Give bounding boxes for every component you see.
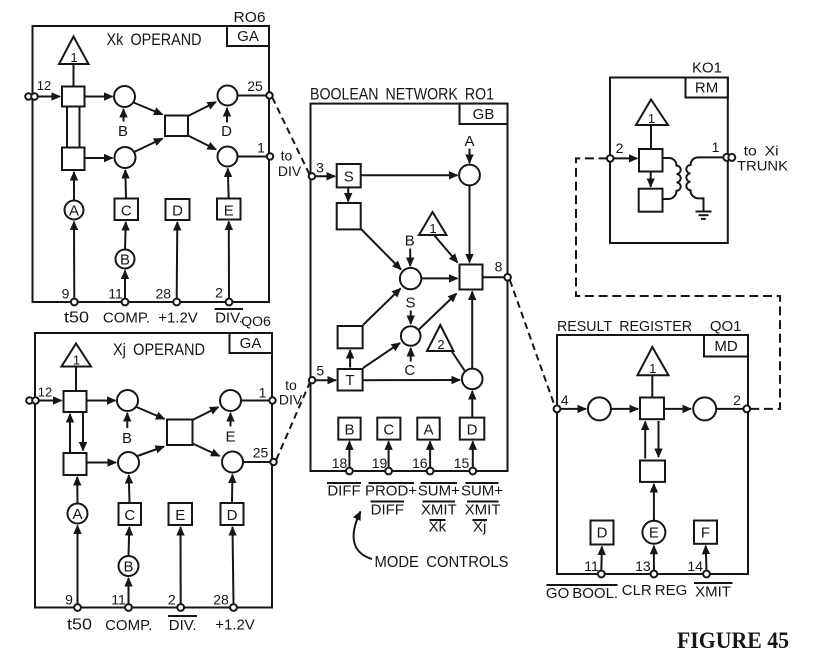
pin 9 Xj xyxy=(65,592,81,611)
wire triangle to square QO1 xyxy=(651,375,653,397)
square D middle xyxy=(166,199,190,220)
svg-text:5: 5 xyxy=(316,363,324,379)
svg-text:1: 1 xyxy=(259,385,267,401)
transformer secondary winding xyxy=(686,157,723,211)
svg-text:GA: GA xyxy=(237,28,259,45)
svg-text:E: E xyxy=(225,429,235,446)
diagonal circle B to center square xyxy=(134,103,163,115)
svg-text:MD: MD xyxy=(714,338,737,355)
svg-text:Xk: Xk xyxy=(429,519,447,536)
svg-text:A: A xyxy=(69,202,79,219)
diagonal lower circle to center square Xj xyxy=(138,447,165,457)
svg-text:QO6: QO6 xyxy=(241,313,271,329)
circle E QO1 xyxy=(642,521,665,544)
output pin 1 to DIV xyxy=(257,140,302,180)
arrow B to C xyxy=(124,222,127,250)
svg-text:1: 1 xyxy=(649,361,656,376)
arrow C to lower left circle xyxy=(124,170,127,199)
svg-text:MODE CONTROLS: MODE CONTROLS xyxy=(375,554,509,571)
svg-text:to Xi: to Xi xyxy=(744,143,779,159)
wire pin 2 to E xyxy=(228,222,230,299)
arrow T up to square xyxy=(349,350,351,368)
curved arrow mode controls xyxy=(354,512,372,560)
center square mixer xyxy=(165,116,188,137)
svg-text:D: D xyxy=(597,525,608,542)
svg-text:S: S xyxy=(405,295,415,312)
square B boolean xyxy=(338,418,360,440)
circle A xyxy=(65,201,84,220)
svg-text:TRUNK: TRUNK xyxy=(737,158,789,174)
arrow C to lower left circle Xj xyxy=(128,475,131,503)
pin 13 QO1 xyxy=(635,558,657,577)
line triangle 2 to circle 3 xyxy=(452,351,465,371)
svg-text:D: D xyxy=(172,202,183,219)
svg-text:DIV.: DIV. xyxy=(169,617,197,634)
net COMP. xyxy=(103,310,150,327)
svg-text:D: D xyxy=(467,421,478,438)
svg-text:+1.2V: +1.2V xyxy=(158,310,198,327)
svg-text:11: 11 xyxy=(108,286,123,302)
amplifier triangle 1 KO1 xyxy=(636,100,668,127)
svg-text:1: 1 xyxy=(712,139,720,155)
arrow V1 to circle B Xj xyxy=(87,400,116,402)
svg-text:GA: GA xyxy=(240,335,262,352)
arrow V2 to circle lower left Xj xyxy=(87,462,117,464)
wire to pin 1 xyxy=(238,156,268,158)
svg-text:FIGURE 45: FIGURE 45 xyxy=(677,628,789,653)
diagonal center square to circle E Xj xyxy=(193,407,219,420)
square V1 xyxy=(64,391,87,412)
title RESULT REGISTER QO1 xyxy=(557,318,742,335)
arrow B to C Xj xyxy=(128,527,131,556)
wire T to circle 3 xyxy=(363,379,460,381)
svg-text:E: E xyxy=(224,202,234,219)
square D boolean xyxy=(460,418,485,440)
svg-text:12: 12 xyxy=(38,385,52,400)
feedback arrow up QO1 xyxy=(644,422,646,459)
pin 18 xyxy=(332,455,353,474)
square D QO1 xyxy=(591,521,614,545)
circle B upper Xj xyxy=(117,390,138,411)
svg-text:B: B xyxy=(344,421,354,438)
svg-text:CLR REG: CLR REG xyxy=(622,582,688,599)
center square QO1 xyxy=(640,398,664,420)
lower square QO1 xyxy=(640,461,665,482)
svg-text:PROD+: PROD+ xyxy=(365,483,417,500)
input pin 12 xyxy=(25,78,60,100)
svg-text:KO1: KO1 xyxy=(692,60,722,77)
svg-text:B: B xyxy=(405,233,415,250)
svg-text:COMP.: COMP. xyxy=(105,617,152,634)
wire pin 28 to D xyxy=(176,222,179,299)
square W1 xyxy=(639,149,663,172)
output pin 1 to Xi TRUNK xyxy=(712,139,789,174)
circle B upper xyxy=(114,86,135,107)
wire pin 11 to B xyxy=(124,271,126,299)
pin 14 QO1 xyxy=(687,558,709,577)
diagonal circle B to center square Xj xyxy=(137,407,165,419)
module box Xk OPERAND xyxy=(33,26,270,302)
arrow square to right circle QO1 xyxy=(664,408,691,410)
diagonal T to circle 2 xyxy=(363,343,400,368)
svg-text:+1.2V: +1.2V xyxy=(215,617,255,634)
svg-text:t50: t50 xyxy=(64,310,89,327)
svg-text:15: 15 xyxy=(454,455,470,471)
svg-text:2: 2 xyxy=(733,392,741,408)
triangle 2 boolean xyxy=(427,325,454,352)
svg-text:1: 1 xyxy=(73,353,80,368)
label A input top xyxy=(464,133,474,163)
module box RESULT REGISTER xyxy=(557,335,748,574)
arrow U1 to circle B xyxy=(85,96,113,98)
ground xyxy=(696,212,712,219)
wire pin 15 to D xyxy=(472,441,474,467)
wire pin 11 to B Xj xyxy=(128,578,130,604)
svg-text:2: 2 xyxy=(215,285,223,301)
square C Xj xyxy=(119,503,142,525)
svg-text:to: to xyxy=(281,148,293,164)
arrow pin 2 to W1 xyxy=(614,157,638,159)
square U2 xyxy=(62,148,85,171)
arrow D to lower right circle Xj xyxy=(231,475,233,504)
center square mixer Xj xyxy=(167,420,193,446)
module box BOOLEAN NETWORK xyxy=(311,104,508,471)
diagonal center square to lower right circle Xj xyxy=(193,444,220,457)
net t50 Xj xyxy=(67,617,92,634)
label E input Xj xyxy=(225,413,235,446)
net GO BOOL bar xyxy=(546,585,618,602)
label B input xyxy=(118,109,128,140)
dashed wire Xk 25 to boolean 3 xyxy=(272,98,309,175)
main square boolean xyxy=(460,265,483,290)
net SUM+ bar Xj xyxy=(461,483,503,500)
svg-text:GB: GB xyxy=(473,106,495,123)
square C xyxy=(115,199,139,221)
diagonal center square to circle D xyxy=(188,102,216,116)
arrow W1 to W2 xyxy=(650,172,652,187)
net COMP. Xj xyxy=(105,617,152,634)
wire circle 1 to main square xyxy=(421,277,457,279)
svg-text:4: 4 xyxy=(561,392,569,408)
tag RM xyxy=(686,78,728,98)
pin 11 QO1 xyxy=(584,558,604,577)
diagonal circle 2 to main square xyxy=(419,294,457,330)
square C boolean xyxy=(377,418,400,440)
arrow pin 5 to T xyxy=(315,379,336,381)
svg-text:t50: t50 xyxy=(67,617,92,634)
net t50 xyxy=(64,310,89,327)
svg-text:16: 16 xyxy=(412,455,428,471)
label B boolean xyxy=(405,233,415,267)
output pin 25 xyxy=(247,78,272,99)
svg-text:Xj OPERAND: Xj OPERAND xyxy=(113,340,205,359)
input pin 5 xyxy=(309,363,325,384)
svg-text:1: 1 xyxy=(429,221,436,236)
circle lower right Xj xyxy=(222,452,243,473)
net +1.2V Xj xyxy=(215,617,255,634)
net Xj bar xyxy=(473,519,488,536)
svg-text:1: 1 xyxy=(257,140,265,156)
square T xyxy=(338,369,363,391)
svg-text:RM: RM xyxy=(695,80,718,97)
svg-text:18: 18 xyxy=(332,455,348,471)
wire triangle to square xyxy=(73,64,75,87)
svg-text:D: D xyxy=(221,123,232,140)
circle top right xyxy=(459,165,480,186)
svg-text:Xj: Xj xyxy=(473,519,486,536)
svg-text:2: 2 xyxy=(168,592,176,608)
dashed wire register 2 to KO1 2 xyxy=(576,158,780,409)
svg-text:19: 19 xyxy=(372,455,388,471)
square E xyxy=(217,199,241,220)
wire pin 9 to A xyxy=(73,222,75,299)
svg-text:Xk OPERAND: Xk OPERAND xyxy=(107,30,202,49)
svg-text:8: 8 xyxy=(495,259,503,275)
label D input xyxy=(221,108,232,140)
svg-text:A: A xyxy=(464,133,474,150)
circle lower right xyxy=(218,147,238,167)
svg-text:A: A xyxy=(72,506,82,523)
diagonal lower circle to center square xyxy=(134,139,163,153)
wire to pin 1 Xj xyxy=(241,400,269,402)
square V2 xyxy=(64,453,87,475)
title Xj OPERAND xyxy=(113,340,205,359)
vertical circle 3 to main square xyxy=(471,292,473,369)
svg-text:B: B xyxy=(120,251,130,268)
diagonal triangle 1 to main square xyxy=(434,235,458,263)
pin 28 xyxy=(156,285,181,305)
arrow U2 to circle lower left xyxy=(85,157,113,159)
circle right QO1 xyxy=(693,397,716,420)
svg-text:9: 9 xyxy=(65,592,73,608)
net PROD+ bar xyxy=(365,483,417,500)
arrow A to U2 xyxy=(73,172,75,201)
circle D output xyxy=(218,86,238,106)
svg-text:BOOLEAN NETWORK RO1: BOOLEAN NETWORK RO1 xyxy=(310,85,494,104)
module box KO1 xyxy=(610,78,728,244)
svg-text:D: D xyxy=(227,507,238,524)
svg-text:GO BOOL.: GO BOOL. xyxy=(546,585,618,602)
square above T xyxy=(338,326,363,348)
svg-text:E: E xyxy=(175,507,185,524)
bus arrow up Xj xyxy=(69,414,71,452)
square W2 xyxy=(639,189,663,212)
svg-text:12: 12 xyxy=(37,78,51,93)
net Xk bar xyxy=(429,519,447,536)
net XMIT bar Xk xyxy=(421,502,457,519)
middle circle 1 xyxy=(400,268,421,289)
svg-text:9: 9 xyxy=(62,286,70,302)
svg-text:B: B xyxy=(123,558,133,575)
svg-text:COMP.: COMP. xyxy=(103,310,150,327)
wire triangle to square KO1 xyxy=(650,125,652,149)
svg-text:1: 1 xyxy=(648,111,655,126)
pin 2 xyxy=(215,285,232,306)
pin 15 xyxy=(454,455,476,474)
svg-text:A: A xyxy=(423,421,433,438)
vertical top circle to main square xyxy=(469,185,471,262)
arrow E to lower right circle xyxy=(227,169,230,199)
amplifier triangle 1 xyxy=(59,37,89,66)
caption FIGURE 45 xyxy=(677,628,789,653)
wire pin 11 to D QO1 xyxy=(600,547,603,571)
svg-text:2: 2 xyxy=(437,337,444,352)
svg-text:QO1: QO1 xyxy=(710,318,742,335)
svg-text:28: 28 xyxy=(156,285,172,301)
net DIFF bar xyxy=(327,483,361,500)
output pin 1 Xj to DIV xyxy=(259,377,303,408)
square F QO1 xyxy=(694,521,717,544)
pin 11 Xj xyxy=(111,592,132,611)
circle E upper right Xj xyxy=(220,390,241,411)
amplifier triangle 1 Xj xyxy=(62,344,92,368)
svg-text:25: 25 xyxy=(247,78,263,94)
circle lower left Xj xyxy=(118,452,139,473)
svg-text:DIFF: DIFF xyxy=(327,483,360,500)
wire to pin 25 Xj xyxy=(243,461,271,463)
square D lower Xj xyxy=(221,503,244,525)
label KO1 xyxy=(692,60,722,77)
svg-text:SUM+: SUM+ xyxy=(461,483,503,500)
wire pin 18 to B xyxy=(348,441,350,467)
svg-text:B: B xyxy=(122,430,132,447)
pin 11 xyxy=(108,286,128,306)
net XMIT bar QO1 xyxy=(694,583,733,601)
svg-text:DIFF: DIFF xyxy=(371,502,404,519)
wire triangle to square Xj xyxy=(75,367,77,392)
net DIFF bar 2 xyxy=(371,502,405,519)
wire S to top circle xyxy=(361,174,458,176)
output pin 25 Xj xyxy=(253,445,277,466)
net XMIT bar Xj xyxy=(465,502,501,519)
net CLR REG xyxy=(622,582,688,599)
svg-text:2: 2 xyxy=(616,140,624,156)
square S xyxy=(337,164,361,187)
tag MD xyxy=(704,335,748,357)
svg-text:SUM+: SUM+ xyxy=(418,483,460,500)
dashed wire Xj 25 to boolean 5 xyxy=(276,383,310,460)
bus arrow down Xj xyxy=(82,413,84,451)
output pin 2 QO1 xyxy=(733,392,750,412)
svg-text:C: C xyxy=(121,202,132,219)
amplifier triangle 1 QO1 xyxy=(638,347,669,376)
circle B lower xyxy=(116,250,135,269)
pin 28 Xj xyxy=(213,592,237,611)
net +1.2V xyxy=(158,310,198,327)
bus lines between squares xyxy=(67,107,80,148)
net DIV bar xyxy=(215,309,244,327)
diagonal square to middle circle 1 xyxy=(361,229,402,270)
svg-text:C: C xyxy=(404,362,415,379)
title BOOLEAN NETWORK RO1 xyxy=(310,85,494,104)
svg-text:C: C xyxy=(383,421,394,438)
wire pin 13 to E QO1 xyxy=(653,546,655,571)
svg-text:XMIT: XMIT xyxy=(465,502,501,519)
square U1 xyxy=(62,87,85,107)
svg-text:DIV.: DIV. xyxy=(215,310,243,327)
circle lower left xyxy=(115,147,136,168)
input pin 2 KO1 xyxy=(607,140,624,162)
net SUM+ bar Xk xyxy=(418,483,460,500)
circle left QO1 xyxy=(588,397,611,420)
tag GA 2 xyxy=(230,333,273,353)
arrow S down xyxy=(347,187,349,201)
svg-text:11: 11 xyxy=(584,558,599,574)
feedback arrow down QO1 xyxy=(658,421,660,457)
output pin 8 xyxy=(495,259,511,281)
svg-text:RESULT REGISTER: RESULT REGISTER xyxy=(557,318,692,335)
svg-text:1: 1 xyxy=(70,50,77,65)
diagonal center square to circle E row xyxy=(188,136,216,150)
label QO6 xyxy=(241,313,271,329)
wire pin 16 to A xyxy=(429,441,431,467)
arrow E to lower square QO1 xyxy=(653,484,655,521)
arrow D to circle 3 xyxy=(471,391,473,418)
label MODE CONTROLS xyxy=(375,554,509,571)
label C middle xyxy=(404,348,415,379)
label RO6 xyxy=(234,9,266,26)
arrow pin 4 to circle xyxy=(560,408,586,410)
input pin 12 Xj xyxy=(26,385,61,404)
svg-text:RO6: RO6 xyxy=(234,9,266,26)
svg-text:DIV: DIV xyxy=(278,163,302,179)
svg-text:XMIT: XMIT xyxy=(421,502,457,519)
square A boolean xyxy=(417,418,439,440)
wire pin 2 to E Xj xyxy=(180,527,182,604)
module box Xj OPERAND xyxy=(35,333,272,608)
svg-text:S: S xyxy=(344,168,354,185)
wire pin 9 to A Xj xyxy=(77,526,79,605)
arrow circle to square QO1 xyxy=(611,408,638,410)
wire pin 19 to C xyxy=(388,441,390,467)
svg-text:13: 13 xyxy=(635,558,651,574)
arrow pin 3 to S xyxy=(315,175,335,177)
triangle 1 boolean xyxy=(419,212,447,236)
wire to pin 25 xyxy=(238,95,267,97)
svg-text:XMIT: XMIT xyxy=(695,584,731,601)
input pin 3 xyxy=(309,160,324,180)
svg-text:14: 14 xyxy=(687,558,703,574)
input pin 4 xyxy=(554,392,569,412)
square E lower Xj xyxy=(169,503,193,525)
tag GB xyxy=(460,104,508,124)
square below S xyxy=(337,203,361,229)
svg-text:B: B xyxy=(118,123,128,140)
svg-text:C: C xyxy=(124,507,135,524)
net DIV bar Xj xyxy=(168,616,197,634)
pin 16 xyxy=(412,455,433,474)
circle A Xj xyxy=(68,504,88,524)
tag GA xyxy=(227,26,269,46)
middle circle 2 xyxy=(401,326,421,346)
wire main square to pin 8 xyxy=(483,276,505,278)
pin 9 xyxy=(62,286,78,306)
svg-text:11: 11 xyxy=(111,592,126,608)
pin 2 Xj xyxy=(168,592,184,611)
wire pin 28 to D Xj xyxy=(233,527,234,604)
circle B lower Xj xyxy=(119,556,139,576)
title Xk OPERAND xyxy=(107,30,202,49)
svg-text:F: F xyxy=(701,525,710,542)
dashed wire boolean 8 to register 4 xyxy=(510,280,555,406)
pin 19 xyxy=(372,455,392,474)
wire pin 14 to F QO1 xyxy=(705,546,708,571)
diagonal square above T to circle 1 xyxy=(363,289,401,326)
svg-text:28: 28 xyxy=(213,592,229,608)
arrow A to V2 Xj xyxy=(76,477,78,503)
svg-text:3: 3 xyxy=(316,160,324,176)
label S middle xyxy=(405,295,415,325)
